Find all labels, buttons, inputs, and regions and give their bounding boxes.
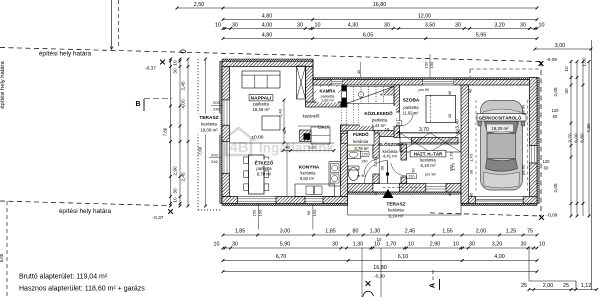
svg-text:parketta: parketta (256, 166, 272, 171)
svg-text:2,90: 2,90 (173, 166, 178, 176)
svg-text:6,10: 6,10 (398, 254, 409, 260)
svg-text:40: 40 (467, 88, 472, 93)
svg-text:80: 80 (353, 229, 359, 235)
svg-text:30: 30 (173, 188, 178, 194)
svg-text:Lsk16: Lsk16 (318, 125, 330, 130)
svg-text:90: 90 (381, 166, 385, 170)
svg-text:30: 30 (332, 242, 338, 248)
svg-text:150: 150 (312, 209, 317, 216)
svg-text:10: 10 (408, 242, 414, 248)
svg-text:150: 150 (258, 209, 263, 216)
svg-text:40: 40 (447, 113, 452, 118)
svg-text:kerámia: kerámia (353, 139, 369, 144)
svg-text:ELŐSZOBA: ELŐSZOBA (378, 141, 404, 147)
svg-text:30: 30 (232, 242, 238, 248)
svg-text:3,79 m²: 3,79 m² (354, 146, 369, 151)
svg-text:6,00: 6,00 (574, 133, 579, 143)
svg-text:150: 150 (424, 61, 429, 68)
svg-text:2,10: 2,10 (373, 158, 378, 167)
svg-text:kerámia: kerámia (420, 157, 436, 162)
svg-text:2,70: 2,70 (568, 133, 573, 143)
svg-text:30: 30 (469, 242, 475, 248)
svg-text:2,45: 2,45 (405, 229, 416, 235)
svg-text:építési hely határa: építési hely határa (59, 208, 112, 215)
svg-text:90: 90 (411, 168, 415, 172)
svg-text:1,70: 1,70 (449, 151, 454, 160)
svg-text:3,70: 3,70 (419, 127, 429, 133)
svg-text:150: 150 (429, 61, 434, 68)
svg-text:4,00: 4,00 (494, 254, 505, 260)
svg-text:25: 25 (563, 283, 569, 289)
svg-text:40: 40 (447, 90, 452, 95)
svg-text:2,05: 2,05 (553, 87, 558, 97)
svg-text:7,60: 7,60 (198, 146, 203, 155)
svg-text:5,10 m²: 5,10 m² (421, 163, 436, 168)
svg-text:3,00: 3,00 (280, 229, 291, 235)
svg-text:építési hely határa: építési hely határa (0, 61, 6, 109)
svg-text:3,40: 3,40 (455, 119, 460, 129)
svg-text:40: 40 (356, 69, 361, 74)
svg-text:1,12: 1,12 (581, 283, 592, 289)
svg-text:2,90: 2,90 (430, 242, 441, 248)
svg-text:40: 40 (373, 191, 378, 196)
svg-text:parketta: parketta (372, 118, 388, 123)
svg-text:B: B (135, 101, 140, 108)
svg-text:10: 10 (374, 242, 380, 248)
svg-text:10: 10 (315, 23, 321, 29)
svg-text:1,82 m²: 1,82 m² (321, 98, 335, 102)
svg-text:120: 120 (552, 108, 560, 113)
svg-text:60: 60 (544, 166, 549, 171)
svg-text:Hasznos alapterület: 118,60 m²: Hasznos alapterület: 118,60 m² + garázs (19, 286, 145, 293)
svg-text:90: 90 (306, 210, 311, 215)
svg-text:3,20: 3,20 (494, 23, 505, 29)
svg-text:4,00: 4,00 (262, 23, 273, 29)
svg-text:parketta: parketta (403, 105, 419, 110)
svg-text:16,80: 16,80 (373, 2, 387, 8)
svg-text:30: 30 (232, 23, 238, 29)
svg-text:6,70: 6,70 (276, 254, 287, 260)
svg-text:3,00: 3,00 (555, 43, 566, 49)
svg-text:170: 170 (362, 152, 368, 156)
svg-text:építési hely határa: építési hely határa (39, 51, 92, 58)
svg-text:2,05: 2,05 (553, 183, 558, 193)
svg-text:prs 90: prs 90 (425, 173, 436, 177)
svg-text:4,41 m²: 4,41 m² (383, 153, 398, 158)
svg-text:19,00 m²: 19,00 m² (200, 128, 218, 133)
svg-text:1,30: 1,30 (353, 242, 364, 248)
svg-text:1,00: 1,00 (582, 57, 587, 67)
svg-text:1,85: 1,85 (325, 229, 336, 235)
svg-text:240: 240 (211, 159, 218, 164)
svg-text:A: A (428, 283, 437, 288)
svg-text:m 90: m 90 (357, 174, 365, 178)
svg-text:7,80: 7,80 (586, 123, 591, 133)
svg-text:Ingatlanlink: Ingatlanlink (259, 141, 335, 156)
svg-text:KAMRA: KAMRA (320, 88, 336, 93)
svg-text:12,00: 12,00 (418, 14, 432, 20)
svg-text:10: 10 (214, 242, 220, 248)
svg-text:5,90: 5,90 (280, 242, 291, 248)
svg-text:30: 30 (521, 242, 527, 248)
svg-text:5,95: 5,95 (476, 33, 487, 39)
svg-text:60: 60 (553, 114, 558, 119)
svg-text:kerámia: kerámia (301, 170, 317, 175)
svg-text:1,55: 1,55 (442, 229, 453, 235)
svg-text:kerámia: kerámia (201, 122, 217, 127)
svg-text:10: 10 (453, 242, 459, 248)
svg-text:-0,37: -0,37 (153, 215, 164, 221)
svg-text:pm 90: pm 90 (419, 88, 430, 92)
svg-text:kazánelő: kazánelő (303, 114, 320, 119)
svg-text:FÜRDŐ: FÜRDŐ (353, 132, 369, 137)
svg-text:2,45: 2,45 (181, 172, 186, 182)
svg-text:1,70: 1,70 (468, 153, 473, 162)
svg-text:4,00: 4,00 (181, 99, 186, 109)
svg-text:1,25: 1,25 (506, 229, 517, 235)
svg-text:-0,30: -0,30 (374, 274, 385, 280)
svg-text:-0,09: -0,09 (547, 213, 558, 219)
svg-text:10: 10 (377, 237, 382, 242)
svg-text:2,00: 2,00 (476, 229, 487, 235)
svg-text:GÉPKOCSITÁROLÓ: GÉPKOCSITÁROLÓ (479, 113, 522, 120)
svg-text:6,80: 6,80 (580, 133, 585, 143)
svg-text:-0,37: -0,37 (145, 66, 156, 72)
svg-text:10: 10 (215, 23, 221, 29)
svg-text:4,30: 4,30 (348, 23, 359, 29)
svg-text:kerámia: kerámia (388, 208, 404, 213)
svg-text:120: 120 (543, 159, 551, 164)
svg-text:2,45: 2,45 (181, 81, 186, 91)
svg-text:2,00: 2,00 (543, 283, 554, 289)
svg-text:8,70 m²: 8,70 m² (257, 171, 272, 176)
svg-text:pm 60: pm 60 (522, 165, 526, 176)
svg-text:40: 40 (285, 145, 290, 150)
svg-text:7,80: 7,80 (163, 127, 168, 136)
svg-text:1,70: 1,70 (451, 162, 456, 171)
svg-text:1,40: 1,40 (278, 108, 283, 117)
svg-text:±0,00: ±0,00 (252, 135, 264, 141)
svg-text:6,14 m²: 6,14 m² (389, 214, 404, 219)
svg-text:1,30: 1,30 (370, 229, 381, 235)
svg-text:200: 200 (211, 153, 218, 158)
svg-text:1,70: 1,70 (386, 242, 397, 248)
svg-text:240: 240 (213, 107, 220, 112)
svg-text:10: 10 (385, 127, 390, 132)
svg-text:4B: 4B (229, 139, 248, 156)
svg-text:30: 30 (520, 23, 526, 29)
svg-text:TERASZ: TERASZ (199, 115, 218, 121)
svg-text:30: 30 (384, 23, 390, 29)
svg-text:30: 30 (455, 23, 461, 29)
svg-text:parketta: parketta (253, 101, 269, 106)
svg-text:10: 10 (539, 23, 545, 29)
svg-text:210: 210 (409, 175, 415, 179)
svg-text:40: 40 (468, 192, 473, 197)
svg-text:6,05: 6,05 (363, 33, 374, 39)
svg-text:4,80: 4,80 (262, 33, 273, 39)
svg-text:-0,09: -0,09 (546, 57, 557, 63)
svg-text:200: 200 (213, 100, 220, 105)
svg-text:18,46 m²: 18,46 m² (252, 107, 270, 112)
svg-text:2,50: 2,50 (194, 2, 205, 8)
svg-text:30: 30 (297, 23, 303, 29)
svg-text:10: 10 (564, 66, 569, 72)
svg-text:40: 40 (447, 191, 452, 196)
svg-text:ÉTKEZŐ: ÉTKEZŐ (255, 158, 274, 165)
svg-text:11,92 m²: 11,92 m² (402, 110, 419, 115)
svg-text:10: 10 (173, 60, 178, 66)
svg-text:SZOBA: SZOBA (403, 98, 420, 104)
svg-text:6,00: 6,00 (0, 253, 4, 262)
svg-text:240: 240 (362, 159, 368, 163)
svg-text:9,82 m²: 9,82 m² (300, 176, 315, 181)
svg-text:1,85: 1,85 (235, 229, 246, 235)
svg-text:30: 30 (564, 88, 569, 94)
svg-text:1,60: 1,60 (308, 145, 317, 150)
svg-text:30: 30 (173, 68, 178, 74)
svg-text:150: 150 (252, 209, 257, 216)
svg-text:HÁZT. H.-TÁR: HÁZT. H.-TÁR (414, 151, 443, 156)
svg-text:19,20 m²: 19,20 m² (491, 126, 509, 131)
svg-text:75: 75 (527, 229, 533, 235)
svg-text:pm 60: pm 60 (522, 105, 526, 116)
svg-text:16,80: 16,80 (373, 265, 387, 271)
svg-text:10: 10 (539, 242, 545, 248)
svg-text:4,80: 4,80 (262, 14, 273, 20)
svg-text:30: 30 (468, 169, 473, 174)
svg-text:KÖZLEKEDŐ: KÖZLEKEDŐ (364, 110, 393, 116)
svg-text:3,20: 3,20 (492, 242, 503, 248)
svg-text:3,50: 3,50 (425, 23, 436, 29)
svg-text:10: 10 (173, 197, 178, 203)
svg-text:Bruttó alapterület: 119,04 m²: Bruttó alapterület: 119,04 m² (19, 274, 108, 281)
svg-text:25: 25 (521, 283, 527, 289)
